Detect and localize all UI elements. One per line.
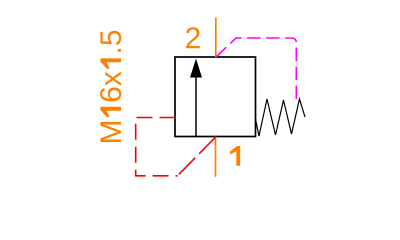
port 1 label bbox=[230, 146, 240, 166]
flow path line inside valve bbox=[195, 75, 197, 137]
thread size label M16x1.5 (rotated) bbox=[100, 31, 121, 142]
drain line diagonal segment (red dashed) to port 1 bbox=[178, 137, 216, 176]
port 2 line (top, orange) bbox=[215, 18, 217, 58]
port 2 label bbox=[186, 27, 200, 48]
port 1 line (bottom, orange) bbox=[215, 137, 217, 177]
valve body square bbox=[175, 57, 256, 137]
pilot line (magenta dashed) from port 2 to spring bbox=[217, 38, 297, 100]
drain line (red dashed) from left side around to bottom bbox=[136, 118, 178, 176]
spring bbox=[256, 99, 306, 136]
flow arrowhead bbox=[190, 59, 202, 78]
